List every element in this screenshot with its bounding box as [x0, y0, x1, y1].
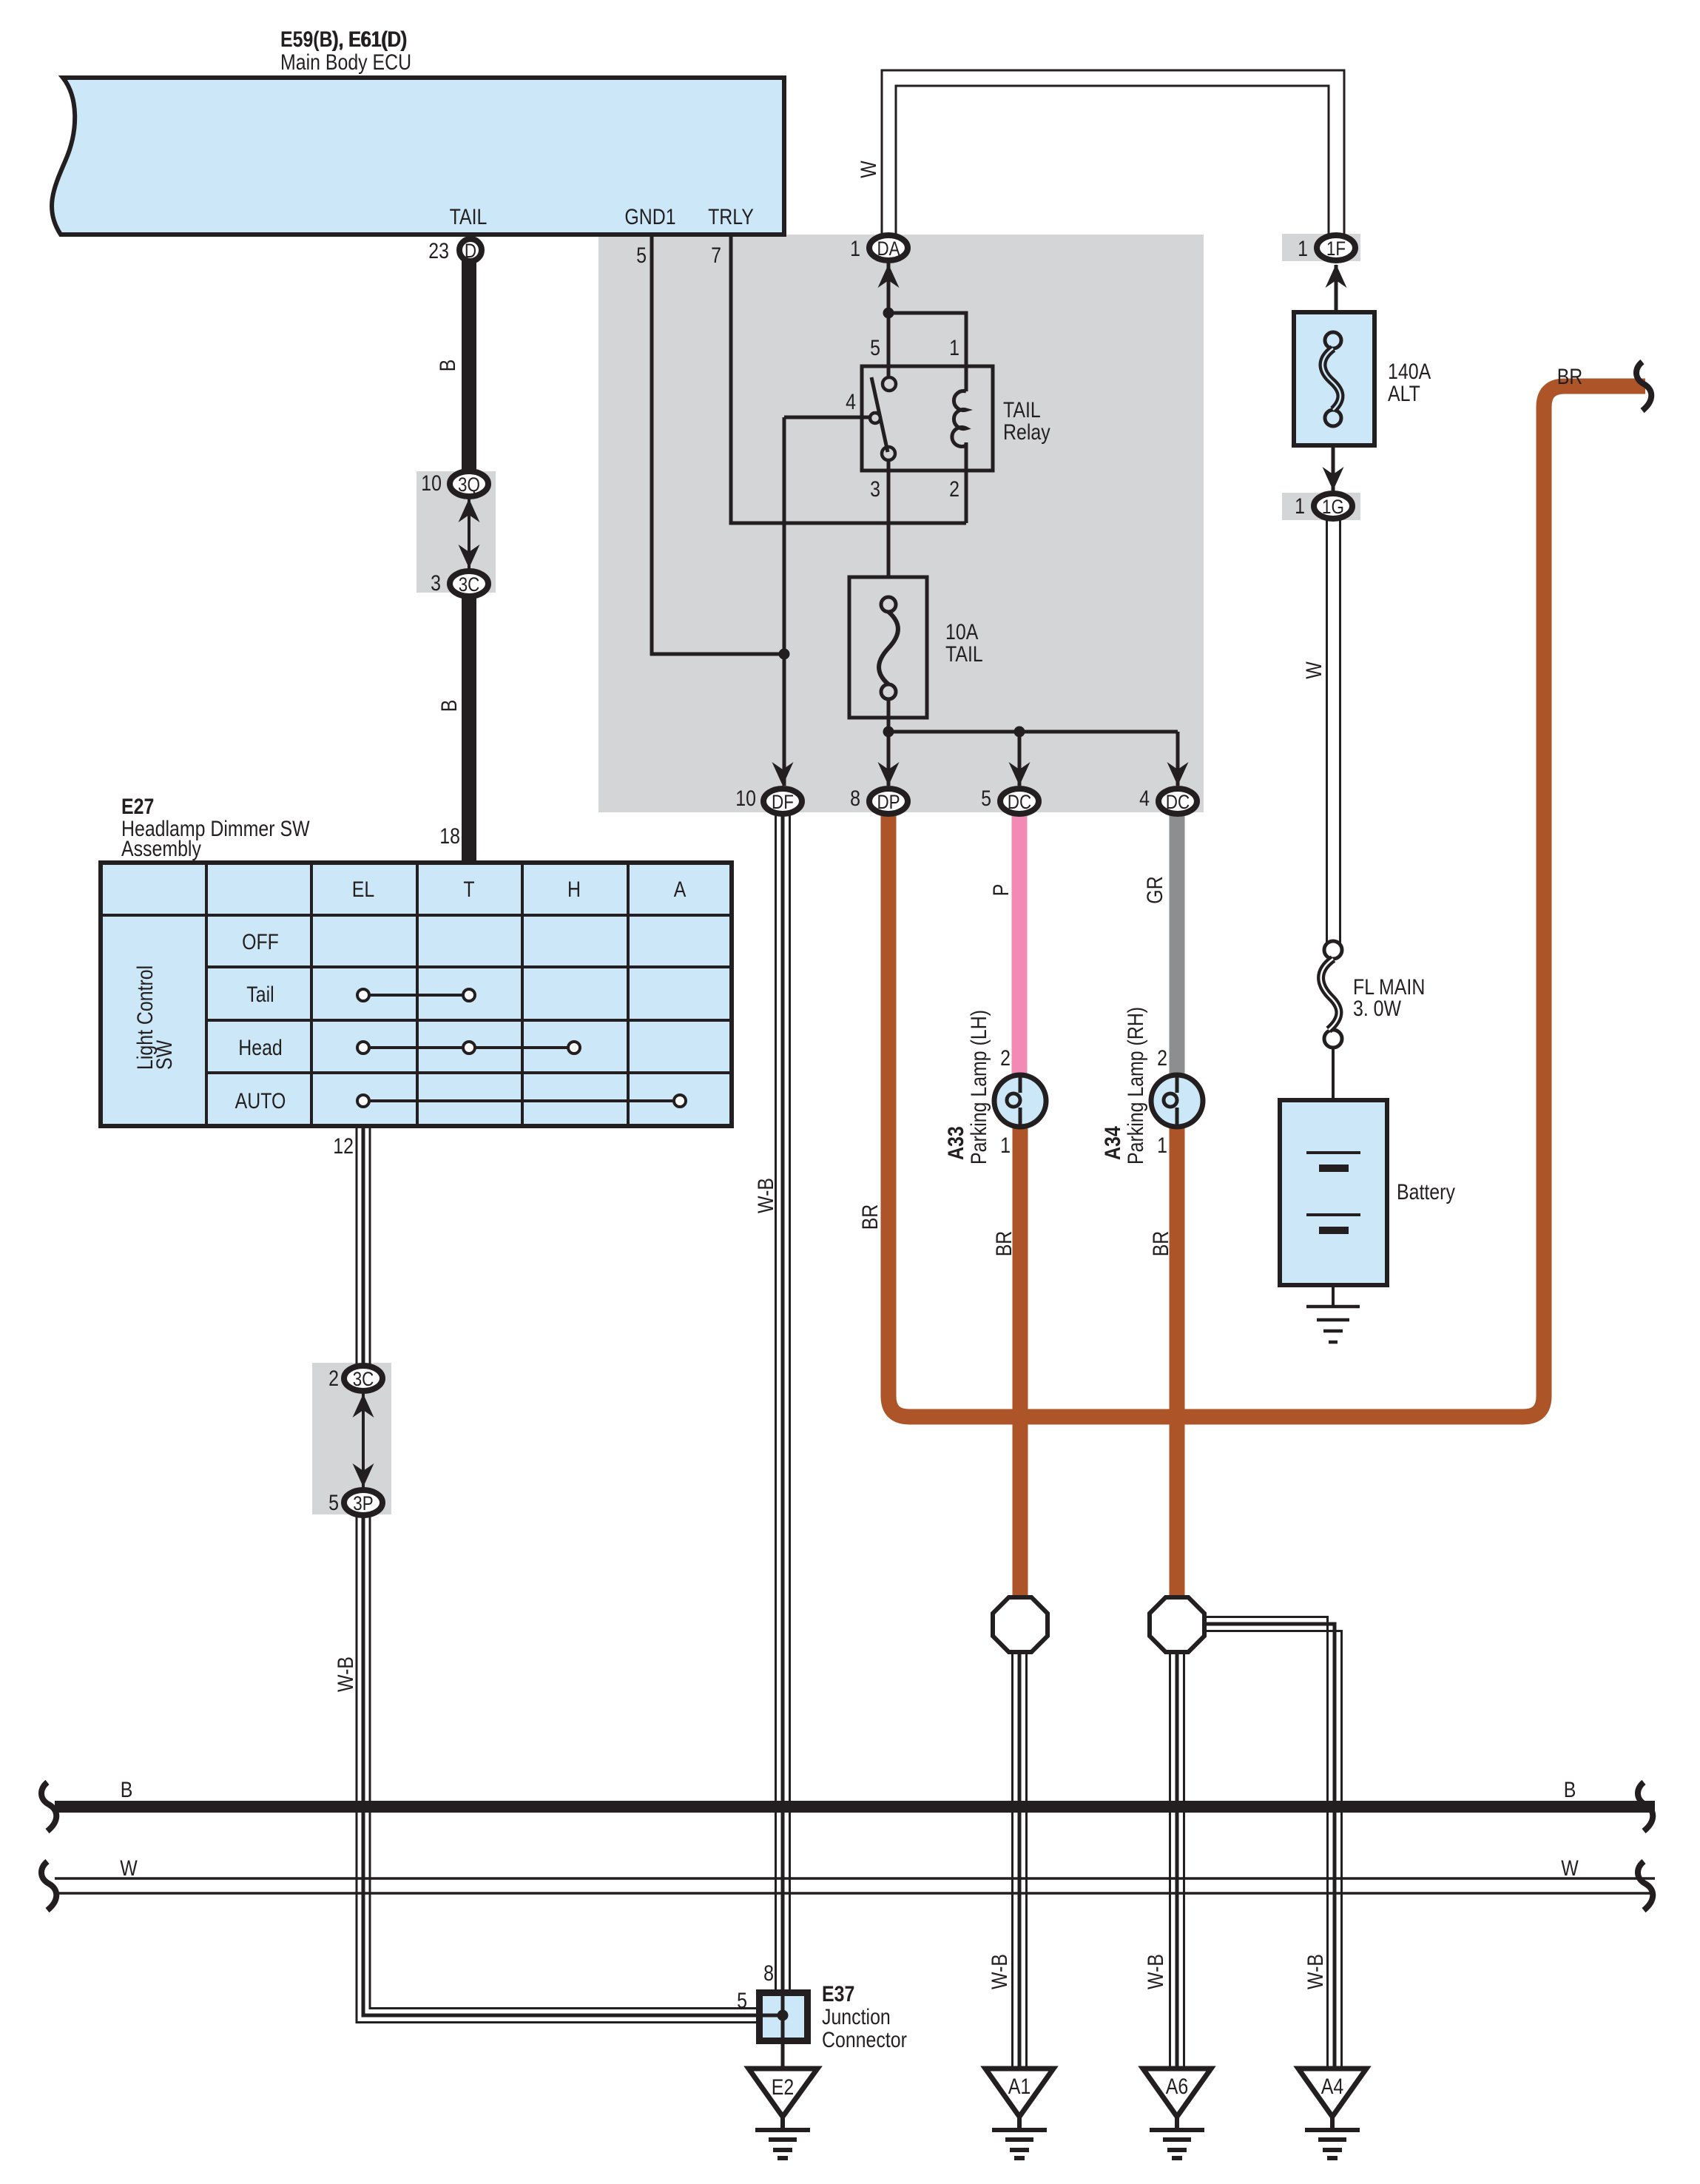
svg-text:1: 1 [1157, 1133, 1167, 1158]
svg-text:E27: E27 [121, 795, 154, 819]
svg-text:5: 5 [636, 243, 647, 268]
svg-text:ALT: ALT [1388, 382, 1420, 406]
svg-text:H: H [567, 877, 581, 902]
svg-text:Head: Head [238, 1036, 283, 1060]
svg-text:1: 1 [850, 237, 860, 261]
svg-text:TAIL: TAIL [945, 642, 983, 667]
svg-text:2: 2 [328, 1366, 339, 1391]
svg-text:7: 7 [711, 243, 721, 268]
svg-text:W: W [1302, 661, 1326, 679]
svg-text:Connector: Connector [822, 2028, 907, 2052]
svg-text:A33: A33 [944, 1126, 968, 1160]
svg-text:1: 1 [1000, 1133, 1011, 1158]
svg-text:A: A [674, 877, 687, 902]
svg-text:Parking Lamp (LH): Parking Lamp (LH) [967, 1010, 991, 1165]
svg-text:2: 2 [1157, 1046, 1167, 1071]
svg-text:B: B [121, 1778, 133, 1802]
svg-text:OFF: OFF [242, 930, 279, 954]
svg-text:W-B: W-B [1144, 1954, 1168, 1989]
svg-text:SW: SW [152, 1039, 177, 1070]
svg-text:3Q: 3Q [458, 473, 480, 496]
svg-text:3C: 3C [353, 1368, 374, 1390]
svg-text:BR: BR [992, 1231, 1016, 1257]
svg-text:E2: E2 [772, 2075, 795, 2100]
svg-text:3: 3 [870, 477, 880, 502]
svg-text:12: 12 [333, 1134, 354, 1159]
svg-text:BR: BR [1149, 1231, 1173, 1257]
svg-text:Junction: Junction [822, 2005, 891, 2029]
svg-text:P: P [989, 884, 1013, 897]
svg-text:GR: GR [1143, 876, 1167, 903]
svg-text:DF: DF [772, 791, 794, 813]
svg-text:18: 18 [439, 824, 460, 849]
svg-text:Relay: Relay [1003, 420, 1050, 445]
svg-text:E37: E37 [822, 1982, 854, 2006]
svg-text:Tail: Tail [246, 983, 274, 1007]
svg-text:140A: 140A [1388, 360, 1431, 384]
svg-text:W: W [857, 161, 881, 178]
svg-text:T: T [463, 877, 474, 902]
svg-text:A34: A34 [1101, 1126, 1125, 1160]
svg-text:10A: 10A [945, 620, 978, 644]
svg-text:3: 3 [431, 571, 441, 596]
svg-text:A1: A1 [1008, 2075, 1031, 2099]
svg-text:3P: 3P [353, 1492, 373, 1514]
svg-text:GND1: GND1 [624, 205, 675, 229]
svg-text:E59(B), E61(D): E59(B), E61(D) [280, 27, 408, 52]
svg-text:3C: 3C [459, 573, 480, 596]
svg-text:4: 4 [846, 390, 856, 414]
svg-text:W-B: W-B [334, 1656, 358, 1692]
svg-text:B: B [436, 360, 460, 372]
svg-text:5: 5 [737, 1989, 747, 2013]
svg-text:2: 2 [1000, 1046, 1011, 1071]
svg-text:8: 8 [763, 1961, 774, 1986]
svg-text:8: 8 [850, 786, 860, 811]
svg-text:1: 1 [1295, 494, 1305, 519]
svg-text:Main Body ECU: Main Body ECU [280, 50, 411, 75]
svg-text:DC: DC [1008, 791, 1031, 813]
svg-text:W-B: W-B [988, 1954, 1012, 1989]
svg-text:2: 2 [949, 477, 959, 502]
svg-text:DP: DP [877, 791, 900, 813]
svg-text:TAIL: TAIL [450, 205, 488, 229]
svg-text:TRLY: TRLY [708, 205, 754, 229]
svg-text:DC: DC [1166, 791, 1190, 813]
svg-text:1: 1 [949, 336, 959, 360]
svg-text:3. 0W: 3. 0W [1353, 997, 1402, 1021]
svg-text:DA: DA [877, 237, 900, 260]
svg-text:4: 4 [1139, 786, 1150, 811]
svg-text:23: 23 [428, 239, 449, 263]
svg-text:10: 10 [735, 786, 756, 811]
svg-text:W: W [1561, 1856, 1579, 1881]
svg-text:Assembly: Assembly [121, 837, 201, 861]
svg-text:5: 5 [981, 786, 991, 811]
svg-text:1F: 1F [1326, 237, 1346, 260]
svg-text:1: 1 [1298, 237, 1308, 261]
svg-text:AUTO: AUTO [235, 1089, 286, 1113]
svg-text:B: B [1564, 1778, 1576, 1802]
svg-text:A4: A4 [1321, 2075, 1344, 2099]
svg-text:TAIL: TAIL [1003, 398, 1041, 422]
svg-text:EL: EL [352, 877, 375, 902]
svg-text:W-B: W-B [1303, 1954, 1328, 1989]
svg-text:W-B: W-B [754, 1178, 778, 1213]
svg-text:5: 5 [328, 1491, 339, 1515]
svg-text:D: D [465, 240, 476, 262]
svg-text:1G: 1G [1322, 496, 1344, 518]
svg-text:Battery: Battery [1397, 1180, 1455, 1204]
svg-text:W: W [120, 1856, 138, 1881]
svg-text:A6: A6 [1166, 2075, 1189, 2099]
svg-text:B: B [437, 700, 462, 712]
svg-text:BR: BR [1557, 365, 1583, 389]
svg-text:10: 10 [421, 471, 442, 496]
svg-text:5: 5 [870, 336, 880, 360]
svg-text:Parking Lamp (RH): Parking Lamp (RH) [1124, 1007, 1148, 1165]
svg-text:BR: BR [858, 1204, 883, 1230]
